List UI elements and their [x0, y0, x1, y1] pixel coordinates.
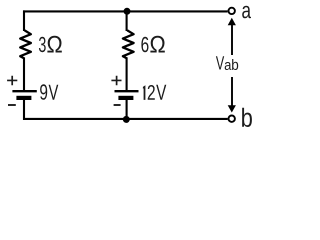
- voltage arrow Vab: up arrowhead at a: [228, 18, 236, 26]
- wire: top rail: [23, 10, 228, 12]
- node label b: [242, 108, 252, 127]
- label 12V: [143, 85, 166, 100]
- voltage arrow Vab: down arrowhead at b: [228, 105, 236, 112]
- node label a: [242, 6, 251, 19]
- wire: middle branch top lead: [126, 11, 128, 31]
- battery V1 (9V): positive plate: [12, 90, 36, 92]
- wire: middle battery to bottom rail: [126, 98, 128, 119]
- minus sign of V2: [114, 104, 121, 106]
- resistor R2 (6 ohm): [123, 30, 134, 58]
- voltage arrow Vab: upper shaft: [231, 25, 233, 56]
- wire: left battery to bottom rail: [23, 98, 25, 120]
- battery V2 (12V): positive plate: [115, 90, 139, 92]
- plus sign of V2: [111, 76, 121, 86]
- voltage arrow Vab: lower shaft: [231, 77, 233, 106]
- battery V2 (12V): negative plate: [118, 96, 133, 100]
- resistor R1 (3 ohm): [20, 30, 31, 58]
- wire: middle resistor to battery: [126, 58, 128, 91]
- label 6Ω: [141, 36, 164, 53]
- label Vab: [216, 56, 238, 70]
- wire: left branch top lead: [23, 10, 25, 31]
- label 9V: [40, 84, 58, 100]
- label 3Ω: [39, 36, 62, 53]
- plus sign of V1: [7, 76, 17, 86]
- wire: left resistor to battery: [23, 58, 25, 91]
- minus sign of V1: [8, 104, 16, 106]
- wire: bottom rail: [23, 118, 228, 120]
- terminal b: [229, 116, 235, 122]
- battery V1 (9V): negative plate: [16, 96, 31, 100]
- terminal a: [229, 8, 235, 14]
- junction dot (top): [124, 8, 131, 15]
- junction dot (bottom): [123, 116, 130, 123]
